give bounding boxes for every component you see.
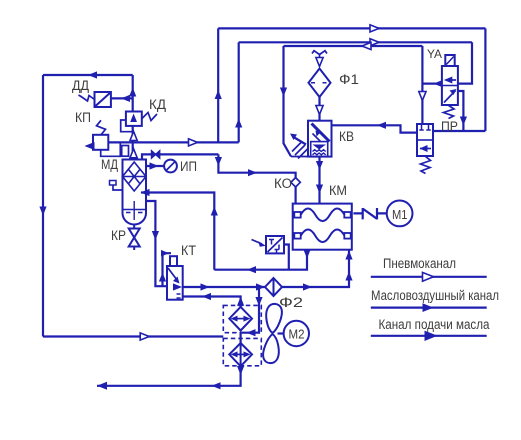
svg-text:КО: КО bbox=[274, 176, 292, 191]
arrow right hollow on air line bbox=[140, 333, 149, 340]
arrow right inside KT bbox=[173, 283, 182, 290]
safety valve KP bbox=[101, 142, 121, 156]
arrow left hollow on y46 bbox=[362, 42, 371, 49]
svg-text:М1: М1 bbox=[392, 208, 408, 222]
KV pilot actuator bbox=[294, 137, 307, 145]
air filter F1 bbox=[309, 69, 331, 98]
svg-text:Масловоздушный канал: Масловоздушный канал bbox=[371, 288, 499, 303]
MD separator element bbox=[123, 162, 147, 191]
arrow right KT-F2 a bbox=[201, 283, 210, 290]
arrow up into KM right b bbox=[345, 251, 352, 260]
wire PR pilot horizontal y131 bbox=[433, 130, 485, 132]
svg-text:КМ: КМ bbox=[329, 183, 347, 198]
arrow left on y75 bbox=[88, 71, 97, 78]
arrow up hollow below KD bbox=[130, 132, 137, 141]
pilot valve PR bbox=[417, 124, 433, 156]
svg-text:Пневмоканал: Пневмоканал bbox=[383, 256, 456, 271]
arrow down YA outlet bbox=[460, 117, 467, 126]
wire radiator outlet bbox=[97, 366, 241, 386]
wire outer loop top bbox=[218, 27, 485, 29]
drain valve KR bbox=[129, 225, 140, 250]
wire left vertical bbox=[42, 75, 44, 337]
heat exchanger 2 bbox=[229, 343, 252, 366]
arrow left YA port bbox=[434, 80, 443, 87]
svg-text:КВ: КВ bbox=[339, 129, 354, 144]
wire M1 shaft bbox=[353, 212, 386, 214]
wire F2 to KM bbox=[282, 250, 349, 287]
wire radiator up bbox=[183, 297, 241, 307]
arrow left on DD link bbox=[121, 95, 130, 102]
arrow down hollow intake bbox=[316, 58, 323, 67]
arrow terminal KP vent bbox=[85, 142, 95, 150]
pressure sensor DD bbox=[95, 92, 111, 107]
wire F1 to KV bbox=[318, 97, 320, 121]
arrow down KM outlet bbox=[303, 250, 310, 259]
wire between radiators bbox=[240, 332, 242, 343]
legend arrow hollow bbox=[423, 272, 434, 281]
wire solenoid link bbox=[284, 245, 289, 270]
arrow down KV-KM 2 bbox=[316, 185, 323, 194]
svg-text:YA: YA bbox=[427, 47, 442, 61]
arrow down MD supply bbox=[152, 231, 159, 240]
wire oil return bottom bbox=[214, 250, 307, 270]
arrow right to KO bbox=[248, 169, 257, 176]
legend line oil supply bbox=[371, 335, 487, 337]
intake breather bbox=[312, 51, 327, 59]
arrow left oil return bottom bbox=[247, 266, 256, 273]
arrow up on x133 bbox=[129, 88, 136, 97]
svg-text:ДД: ДД bbox=[72, 78, 89, 93]
wire KV pilot vertical bbox=[284, 46, 292, 157]
svg-text:Канал подачи масла: Канал подачи масла bbox=[379, 317, 490, 332]
oil solenoid valve bbox=[266, 236, 284, 253]
wire MD top to KO branch bbox=[142, 154, 218, 159]
arrow right to IP bbox=[150, 162, 159, 169]
wire KT out to F2 bbox=[183, 286, 265, 288]
motor M2 bbox=[284, 321, 309, 346]
arrow up inside KD bbox=[130, 114, 137, 123]
arrow up oil return bbox=[211, 207, 218, 216]
wire KO to KM bbox=[295, 187, 297, 203]
MD separator vessel bbox=[123, 160, 147, 225]
wire fan link bbox=[278, 332, 284, 334]
wire MD supply to KT bbox=[146, 201, 167, 286]
radiator dashed boxes bbox=[223, 305, 261, 332]
wire YA left link bbox=[422, 82, 442, 84]
arrow right hollow on y142 bbox=[189, 139, 198, 146]
arrow up into KM right a bbox=[345, 272, 352, 281]
heat exchanger 1 bbox=[229, 307, 252, 331]
svg-text:М2: М2 bbox=[289, 328, 305, 342]
wire YA right riser bbox=[458, 42, 472, 83]
wire YA bottom outlet bbox=[458, 91, 464, 131]
svg-text:КД: КД bbox=[149, 97, 166, 112]
arrow down KO branch bbox=[215, 157, 222, 166]
solenoid valve YA bbox=[442, 66, 458, 105]
arrow up hollow above MD bbox=[130, 149, 137, 158]
arrow right after F2 bbox=[303, 283, 312, 290]
wire left loop top bbox=[43, 74, 133, 76]
arrow right KT-F2 b bbox=[256, 283, 265, 290]
svg-text:ПР: ПР bbox=[441, 119, 458, 134]
coupling N bbox=[363, 208, 377, 219]
arrow left radiator mid bbox=[247, 329, 256, 336]
wire KV to PR bbox=[332, 125, 418, 132]
wire MD oil return bbox=[141, 193, 214, 270]
wire pilot branch y142 bbox=[108, 141, 238, 143]
motor M1 bbox=[387, 201, 413, 227]
wire right edge vertical bbox=[484, 28, 486, 131]
oil filter F2 bbox=[265, 278, 282, 296]
intake valve KV bbox=[308, 121, 332, 157]
arrow down hollow F1-KV bbox=[316, 106, 323, 115]
arrow down radiator outlet bbox=[237, 366, 244, 375]
arrow left to KT bottom bbox=[202, 293, 211, 300]
arrow right hollow on y42 bbox=[370, 39, 379, 46]
wire cooling air bottom bbox=[43, 335, 223, 337]
check valve KO bbox=[291, 178, 300, 187]
svg-text:Ф1: Ф1 bbox=[339, 72, 359, 87]
wire radiator drop bbox=[241, 287, 259, 333]
arrow up radiator out bbox=[237, 297, 244, 306]
arrow down hollow YA-PR bbox=[419, 92, 426, 101]
legend line oil-air bbox=[371, 307, 487, 309]
legend arrow filled big bbox=[425, 331, 438, 341]
svg-text:КП: КП bbox=[75, 110, 91, 125]
MD oil sump level bbox=[123, 201, 147, 220]
svg-text:МД: МД bbox=[101, 157, 118, 172]
wire inner loop top y42 bbox=[239, 41, 472, 43]
arrow down radiator drop bbox=[255, 297, 262, 306]
wire inner loop vertical x238 bbox=[238, 42, 240, 142]
wire DD link bbox=[111, 97, 133, 99]
wire main vertical KD line bbox=[132, 75, 134, 160]
arrow up KT bypass bbox=[159, 273, 166, 282]
svg-text:ИП: ИП bbox=[180, 159, 197, 174]
svg-text:КТ: КТ bbox=[181, 243, 196, 258]
thermostat valve KT bbox=[167, 266, 183, 300]
pressure valve KD bbox=[126, 112, 142, 126]
svg-text:Ф2: Ф2 bbox=[279, 295, 303, 310]
compressor KM bbox=[293, 204, 352, 250]
legend line pneumatic bbox=[371, 276, 487, 278]
arrow left PR-KV bbox=[377, 122, 386, 129]
MD drain flag bbox=[113, 185, 123, 190]
arrow terminal bottom line bbox=[97, 382, 107, 390]
wire YA to PR vertical bbox=[421, 46, 423, 124]
wire KV pilot top y46 bbox=[284, 45, 423, 47]
wire KO branch bbox=[218, 154, 295, 177]
arrow down on KV pilot bbox=[280, 88, 287, 97]
arrow left into MD bbox=[141, 189, 150, 196]
arrow down KV-KM 1 bbox=[316, 161, 323, 170]
arrow left bottom line bbox=[212, 382, 221, 389]
arrow down on x43 bbox=[39, 207, 46, 216]
shut-off valve on KO branch bbox=[152, 151, 160, 159]
arrow up on x238 bbox=[235, 119, 242, 128]
wire outer loop vertical x218 bbox=[217, 28, 219, 142]
wire IP link bbox=[146, 165, 164, 167]
arrow right hollow on y28 bbox=[370, 25, 379, 32]
svg-text:КР: КР bbox=[111, 228, 126, 243]
legend arrow filled bbox=[423, 303, 434, 312]
wire KV to KM bbox=[318, 157, 320, 203]
arrow up on x218 bbox=[215, 90, 222, 99]
fan bbox=[266, 304, 282, 333]
pressure gauge IP bbox=[164, 160, 177, 173]
wire KT bypass branch bbox=[163, 253, 172, 286]
